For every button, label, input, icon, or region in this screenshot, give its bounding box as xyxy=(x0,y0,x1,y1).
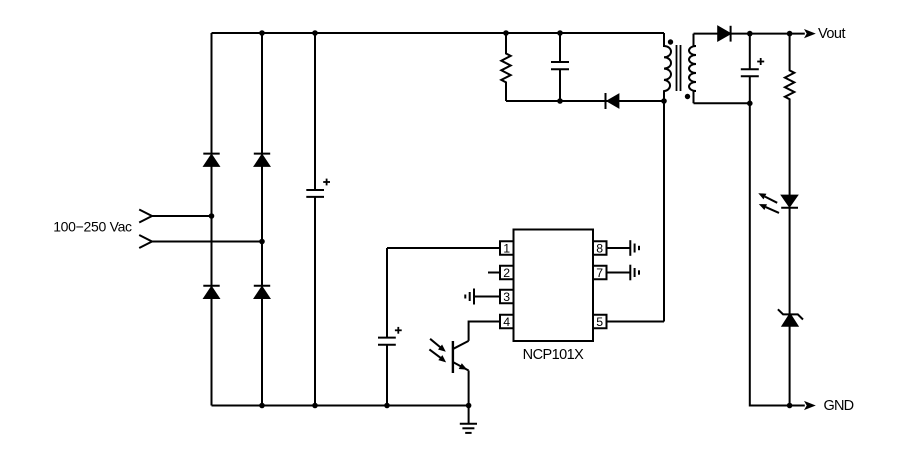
node AC phase B xyxy=(259,239,265,245)
svg-text:GND: GND xyxy=(824,398,854,414)
transformer T1 primary winding xyxy=(664,33,671,101)
svg-text:Vout: Vout xyxy=(818,26,845,42)
node GND junction xyxy=(787,403,793,409)
svg-text:5: 5 xyxy=(596,315,603,329)
diode D5 clamp xyxy=(606,93,619,109)
node top rail junction B xyxy=(259,30,265,36)
wire secondary bottom xyxy=(694,102,750,104)
svg-text:1: 1 xyxy=(503,241,510,255)
wire left bridge vertical A xyxy=(211,33,213,406)
zener D8 xyxy=(778,309,803,326)
wire snubber bottom xyxy=(506,100,664,102)
svg-text:NCP101X: NCP101X xyxy=(523,347,585,363)
U1 pin 2 box xyxy=(500,266,514,280)
capacitor C1 bulk xyxy=(306,33,324,406)
capacitor C3 output xyxy=(741,34,759,104)
wire pin 1 to Vcc cap xyxy=(387,247,500,249)
D7 light arrow 1 xyxy=(758,193,777,203)
wire LED to zener xyxy=(789,208,791,315)
GND arrowhead xyxy=(804,401,816,410)
node C3 bottom xyxy=(747,101,753,107)
node snubber R top xyxy=(503,30,509,36)
Q1 light arrow 2 xyxy=(429,349,446,362)
resistor R2 xyxy=(785,34,794,196)
C1 plus label xyxy=(323,179,330,186)
diode D2 xyxy=(254,154,270,166)
wire top rail xyxy=(212,32,665,34)
wire AC line 2 xyxy=(152,241,262,243)
U1 pin 8 box xyxy=(593,241,607,255)
diode D3 xyxy=(203,286,219,298)
U1 pin 4 box xyxy=(500,315,514,329)
wire Q1 emitter down xyxy=(468,371,470,406)
ground pin 7 xyxy=(630,265,639,281)
svg-text:3: 3 xyxy=(503,290,510,304)
diode D4 xyxy=(254,286,270,298)
node snubber C top xyxy=(557,30,563,36)
wire right bridge vertical B xyxy=(261,33,263,406)
wire pin 8 to ground xyxy=(607,247,631,249)
svg-text:100−250 Vac: 100−250 Vac xyxy=(53,218,132,234)
transformer T1 secondary winding xyxy=(689,34,696,104)
Vout arrowhead xyxy=(804,29,816,38)
U1 pin 7 box xyxy=(593,266,607,280)
U1 pin 1 box xyxy=(500,241,514,255)
node bottom rail C4 xyxy=(384,403,390,409)
resistor R1 snubber xyxy=(501,33,510,101)
svg-text:7: 7 xyxy=(596,266,603,280)
svg-text:4: 4 xyxy=(503,315,510,329)
ground pin 3 xyxy=(465,289,474,305)
C3 plus label xyxy=(757,58,764,65)
op IC U1 NCP101X body xyxy=(514,230,594,342)
ground G1 xyxy=(460,406,477,433)
Q1 light arrow 1 xyxy=(430,339,446,352)
node top rail junction C1 xyxy=(312,30,318,36)
node C3 top xyxy=(747,31,753,37)
node bottom rail C1 xyxy=(312,403,318,409)
T1 primary phase dot xyxy=(668,39,673,44)
wire zener to gnd xyxy=(789,326,791,406)
capacitor C4 Vcc xyxy=(378,248,396,406)
wire pin 3 to ground xyxy=(474,296,500,298)
wire AC line 1 xyxy=(152,215,212,217)
node AC phase A xyxy=(209,213,215,219)
AC input terminal L1 xyxy=(139,210,152,223)
U1 pin 5 box xyxy=(593,315,607,329)
C4 plus label xyxy=(395,327,402,334)
wire pin 2 stub xyxy=(488,272,500,274)
wire pin 7 to ground xyxy=(607,272,631,274)
node primary bottom xyxy=(661,98,667,104)
U1 pin 3 box xyxy=(500,290,514,304)
wire bottom rail xyxy=(212,405,469,407)
ground pin 8 xyxy=(630,240,639,256)
node bottom rail G1 xyxy=(466,403,472,409)
wire output top xyxy=(730,33,805,35)
node Vout xyxy=(787,31,793,37)
wire pin 5 to primary xyxy=(607,321,665,323)
node bottom rail B xyxy=(259,403,265,409)
wire secondary top xyxy=(694,33,719,35)
wire gnd arrow stub xyxy=(790,405,805,407)
wire primary to pin 5 xyxy=(663,101,665,322)
LED D7 xyxy=(781,196,798,208)
AC input terminal L2 xyxy=(139,235,152,248)
diode D1 xyxy=(203,154,219,166)
D7 light arrow 2 xyxy=(759,204,779,213)
node snubber C bottom xyxy=(557,98,563,104)
capacitor C2 snubber xyxy=(551,33,569,101)
svg-text:8: 8 xyxy=(596,241,603,255)
T1 secondary phase dot xyxy=(685,94,690,99)
transistor Q1 optocoupler xyxy=(453,341,469,373)
transformer core xyxy=(677,45,681,91)
diode D6 output rectifier xyxy=(718,26,730,42)
wire pin 4 to optocoupler xyxy=(469,322,500,341)
wire secondary ground return xyxy=(750,103,790,405)
svg-text:2: 2 xyxy=(503,266,510,280)
